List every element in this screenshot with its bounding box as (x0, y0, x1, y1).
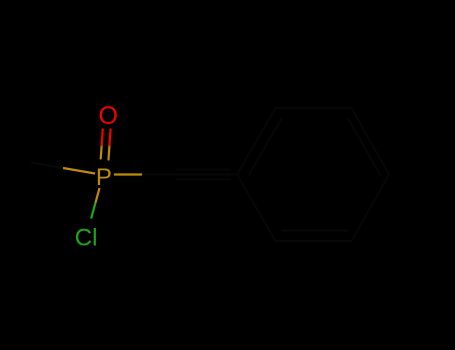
bond P-C alkyne (phosphorus half, olive) (114, 173, 142, 175)
triple bond C≡C upper line (176, 169, 231, 171)
triple bond C≡C center line (170, 174, 237, 176)
svg-text:P: P (96, 164, 112, 191)
bond P-Cl (phosphorus half, olive) (95, 188, 99, 203)
bond P=O double bond, right line (red O-half / olive P-half) (109, 130, 111, 160)
bond P-CH3 (carbon half, dark) (31, 163, 63, 169)
benzene ring outline (237, 108, 389, 241)
svg-text:O: O (98, 102, 117, 130)
benzene inner double-bond line (upper-right to right edge) (348, 119, 381, 176)
bond P-Cl (chlorine half, green) (91, 203, 95, 219)
bond P-CH3 (phosphorus half, olive) (63, 168, 95, 174)
benzene inner double-bond line (upper-left edge) (249, 119, 282, 176)
benzene inner double-bond line (bottom edge) (282, 230, 349, 232)
svg-text:Cl: Cl (75, 224, 98, 251)
bond P=O double bond, left line (red O-half / olive P-half) (101, 130, 103, 159)
triple bond C≡C lower line (176, 178, 231, 180)
bond P-C alkyne (carbon half, dark) (142, 174, 170, 176)
